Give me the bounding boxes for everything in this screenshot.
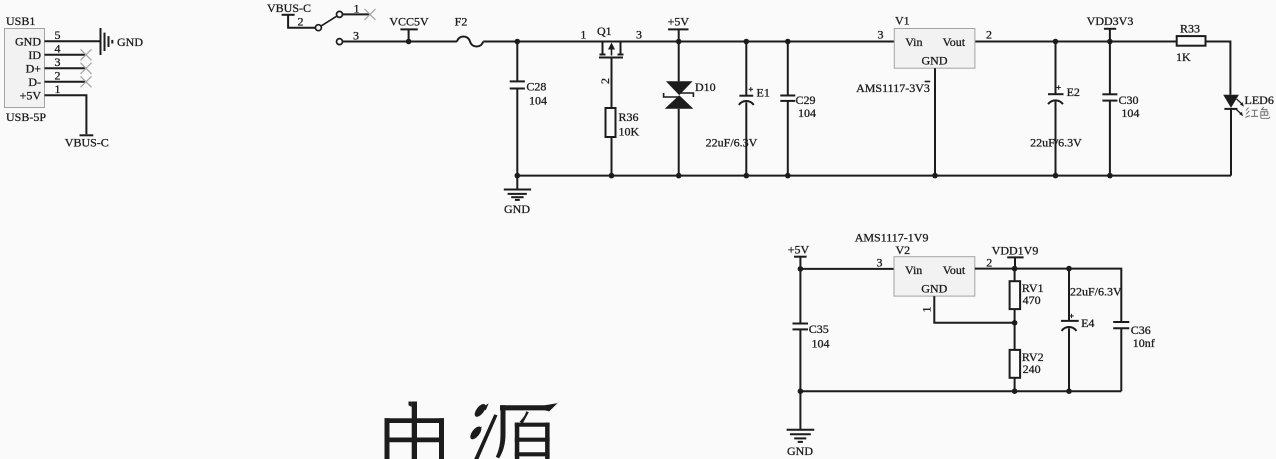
svg-text:VBUS-C: VBUS-C <box>65 136 109 150</box>
svg-text:GND: GND <box>117 35 143 49</box>
svg-text:104: 104 <box>812 337 830 351</box>
svg-text:22uF/6.3V: 22uF/6.3V <box>1030 136 1082 150</box>
svg-text:470: 470 <box>1023 293 1041 307</box>
svg-text:R33: R33 <box>1180 22 1200 36</box>
svg-text:GND: GND <box>504 202 530 216</box>
svg-text:+5V: +5V <box>668 15 690 29</box>
svg-text:V1: V1 <box>895 14 910 28</box>
svg-text:R36: R36 <box>619 110 639 124</box>
svg-text:AMS1117-1V9: AMS1117-1V9 <box>855 231 929 245</box>
svg-text:1: 1 <box>580 28 586 42</box>
svg-text:GND: GND <box>15 34 41 48</box>
svg-text:D+: D+ <box>26 61 42 75</box>
svg-text:+5V: +5V <box>20 88 42 102</box>
svg-text:240: 240 <box>1023 362 1041 376</box>
svg-text:104: 104 <box>798 106 816 120</box>
svg-text:2: 2 <box>986 28 992 42</box>
svg-text:USB-5P: USB-5P <box>6 110 46 124</box>
svg-text:GND: GND <box>922 54 948 68</box>
svg-text:C35: C35 <box>809 322 829 336</box>
svg-text:10nf: 10nf <box>1133 336 1155 350</box>
svg-text:V2: V2 <box>896 243 911 257</box>
svg-text:104: 104 <box>529 93 547 107</box>
svg-text:+5V: +5V <box>788 243 810 257</box>
svg-text:1K: 1K <box>1176 50 1191 64</box>
svg-text:Vout: Vout <box>943 263 966 277</box>
svg-text:3: 3 <box>877 256 883 270</box>
svg-text:ID: ID <box>28 48 41 62</box>
svg-text:1: 1 <box>354 1 360 15</box>
svg-text:VDD3V3: VDD3V3 <box>1087 14 1134 28</box>
svg-text:VCC5V: VCC5V <box>389 15 429 29</box>
svg-text:E2: E2 <box>1067 85 1080 99</box>
svg-text:F2: F2 <box>455 15 468 29</box>
svg-text:1: 1 <box>920 307 934 313</box>
svg-text:GND: GND <box>787 444 813 458</box>
svg-text:USB1: USB1 <box>6 14 35 28</box>
svg-text:3: 3 <box>878 28 884 42</box>
svg-text:Vin: Vin <box>905 35 922 49</box>
svg-text:GND: GND <box>921 282 947 296</box>
svg-text:4: 4 <box>55 41 61 55</box>
svg-text:C36: C36 <box>1131 323 1151 337</box>
svg-text:10K: 10K <box>619 125 640 139</box>
svg-text:22uF/6.3V: 22uF/6.3V <box>1070 284 1122 298</box>
svg-text:22uF/6.3V: 22uF/6.3V <box>706 136 758 150</box>
svg-text:Q1: Q1 <box>597 24 612 38</box>
svg-text:E4: E4 <box>1081 316 1094 330</box>
svg-text:C30: C30 <box>1119 93 1139 107</box>
svg-text:C28: C28 <box>526 80 546 94</box>
svg-text:2: 2 <box>298 15 304 29</box>
svg-text:D-: D- <box>28 75 41 89</box>
svg-text:VDD1V9: VDD1V9 <box>992 243 1039 257</box>
svg-text:2: 2 <box>55 68 61 82</box>
svg-text:2: 2 <box>598 78 612 84</box>
svg-text:C29: C29 <box>796 93 816 107</box>
svg-text:5: 5 <box>55 28 61 42</box>
svg-text:1: 1 <box>55 82 61 96</box>
svg-text:E1: E1 <box>757 86 770 100</box>
svg-text:104: 104 <box>1121 106 1139 120</box>
svg-text:3: 3 <box>636 28 642 42</box>
svg-text:AMS1117-3V3: AMS1117-3V3 <box>856 81 930 95</box>
svg-text:VBUS-C: VBUS-C <box>267 1 311 15</box>
svg-text:3: 3 <box>55 55 61 69</box>
svg-text:Vout: Vout <box>943 35 966 49</box>
svg-text:LED6: LED6 <box>1245 93 1274 107</box>
svg-text:D10: D10 <box>695 80 716 94</box>
svg-text:Vin: Vin <box>905 263 922 277</box>
svg-text:2: 2 <box>986 256 992 270</box>
